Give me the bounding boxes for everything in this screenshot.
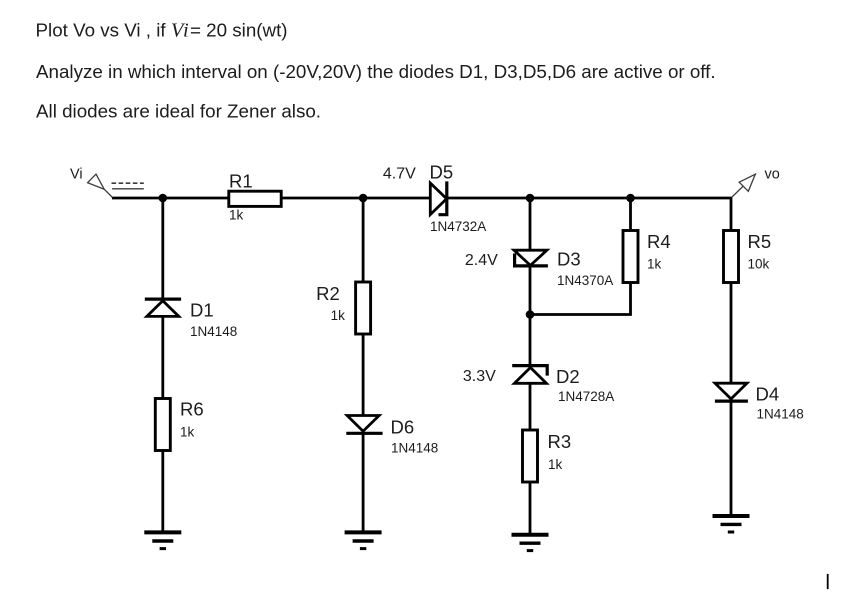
svg-text:R1: R1: [229, 171, 253, 192]
svg-text:Analyze in which interval on (: Analyze in which interval on (-20V,20V) …: [36, 61, 716, 82]
svg-text:R5: R5: [748, 231, 772, 252]
svg-text:1k: 1k: [180, 425, 195, 440]
svg-text:1N4728A: 1N4728A: [558, 389, 614, 404]
svg-text:2.4V: 2.4V: [465, 252, 498, 269]
svg-text:1N4370A: 1N4370A: [557, 273, 613, 288]
svg-text:3.3V: 3.3V: [463, 368, 496, 385]
svg-text:Plot Vo vs Vi , if Vi= 20 sin(: Plot Vo vs Vi , if Vi= 20 sin(wt): [36, 19, 288, 41]
svg-text:1k: 1k: [548, 457, 563, 472]
svg-text:10k: 10k: [748, 257, 770, 272]
svg-text:4.7V: 4.7V: [383, 166, 416, 183]
svg-text:Vi: Vi: [70, 167, 83, 183]
svg-text:R6: R6: [180, 399, 204, 420]
svg-text:1N4148: 1N4148: [190, 324, 237, 339]
svg-text:vo: vo: [765, 167, 780, 183]
svg-text:D5: D5: [430, 162, 454, 183]
svg-text:All diodes are ideal for Zener: All diodes are ideal for Zener also.: [36, 100, 321, 121]
svg-text:1k: 1k: [647, 257, 662, 272]
svg-text:D6: D6: [391, 417, 415, 438]
svg-text:D2: D2: [556, 366, 580, 387]
svg-text:1N4148: 1N4148: [757, 407, 804, 422]
svg-text:D4: D4: [756, 384, 780, 405]
svg-text:D3: D3: [557, 249, 581, 270]
svg-text:R3: R3: [548, 431, 572, 452]
svg-text:R2: R2: [316, 283, 340, 304]
svg-text:D1: D1: [190, 300, 214, 321]
svg-text:1k: 1k: [229, 208, 244, 223]
svg-text:1k: 1k: [331, 308, 346, 323]
svg-text:1N4732A: 1N4732A: [430, 219, 486, 234]
svg-text:R4: R4: [647, 231, 671, 252]
svg-text:1N4148: 1N4148: [391, 441, 438, 456]
